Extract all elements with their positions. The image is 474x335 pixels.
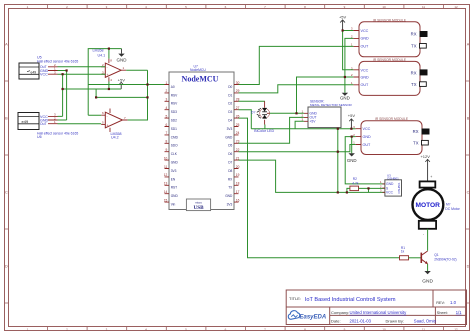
svg-text:BiColor LED: BiColor LED: [254, 129, 274, 133]
svg-text:4.7k: 4.7k: [352, 182, 358, 186]
svg-text:1k: 1k: [401, 250, 405, 254]
svg-text:GND: GND: [347, 158, 357, 163]
svg-text:OuT: OuT: [40, 122, 47, 126]
svg-text:VCC: VCC: [361, 29, 369, 33]
svg-text:e49: e49: [31, 70, 37, 74]
NodeMCU body: [169, 72, 234, 210]
svg-text:6: 6: [166, 123, 168, 127]
svg-text:e49: e49: [22, 119, 29, 124]
svg-text:2021-01-03: 2021-01-03: [350, 319, 372, 324]
IR sensor module 3: [353, 117, 429, 155]
TITLE BLOCK: [286, 290, 466, 325]
junction dots right: [295, 29, 369, 193]
wire node stub: [96, 89, 147, 97]
svg-text:+: +: [107, 123, 109, 127]
svg-text:5: 5: [166, 114, 168, 118]
wire feedback to U4.2 in-: [88, 49, 121, 116]
svg-text:8: 8: [166, 140, 168, 144]
svg-text:3: 3: [166, 98, 168, 102]
svg-text:10: 10: [382, 5, 386, 9]
svg-text:12: 12: [454, 328, 458, 332]
wire metal detector +5V to rail: [295, 121, 304, 128]
svg-text:RSV: RSV: [171, 93, 178, 97]
svg-text:CMD: CMD: [171, 135, 179, 139]
wire module3 GND to GND symbol: [351, 137, 353, 154]
svg-text:+5V: +5V: [118, 77, 126, 82]
svg-text:VCC: VCC: [361, 68, 369, 72]
svg-text:B: B: [5, 116, 8, 120]
wire D1 to IR module2 OUT: [239, 85, 354, 93]
svg-text:D?: D?: [251, 111, 255, 115]
svg-text:B: B: [467, 116, 470, 120]
MOTOR AREA: [400, 154, 461, 285]
svg-text:-: -: [107, 114, 108, 118]
svg-text:CLK: CLK: [171, 152, 178, 156]
MOTOR AREA placeholder: [0, 0, 1, 1]
svg-text:-: -: [107, 65, 108, 69]
wire motor to transistor collector: [427, 229, 429, 251]
svg-text:A: A: [5, 42, 8, 46]
svg-text:2N3904(TO-92): 2N3904(TO-92): [434, 258, 456, 262]
svg-text:GND: GND: [422, 279, 433, 285]
svg-text:SD3: SD3: [171, 110, 177, 114]
svg-text:16: 16: [236, 198, 240, 202]
LEFT AREA: [18, 48, 165, 140]
svg-text:Q1: Q1: [434, 253, 439, 257]
+5V symbol module3: [348, 113, 356, 129]
svg-text:18: 18: [236, 182, 240, 186]
svg-text:D: D: [467, 264, 470, 268]
op-amp U4.2: [101, 109, 127, 133]
wire D5 to metal detector OUT: [239, 117, 304, 143]
svg-text:3V3: 3V3: [227, 127, 233, 131]
svg-text:17: 17: [236, 190, 240, 194]
svg-text:3V3: 3V3: [171, 169, 177, 173]
svg-text:VCC: VCC: [40, 73, 48, 77]
svg-text:Date:: Date:: [331, 319, 341, 324]
+5V symbol (op-amp U4.1): [118, 77, 126, 89]
svg-text:A: A: [467, 42, 470, 46]
RIGHT AREA: [239, 15, 430, 258]
svg-text:10: 10: [382, 328, 386, 332]
wire LED common to metal detector GND and module2 GND: [269, 77, 353, 113]
svg-text:OSHB01: OSHB01: [397, 182, 401, 193]
svg-text:Hall effect sensor 49e 6165: Hall effect sensor 49e 6165: [37, 131, 78, 135]
NodeMCU U7: [164, 65, 240, 212]
svg-text:+12V: +12V: [420, 154, 430, 159]
wire module1 GND down to GND symbol: [345, 38, 354, 92]
svg-text:+: +: [430, 175, 432, 179]
svg-text:U4.1: U4.1: [98, 54, 106, 58]
wire D6 to R2 node: [239, 151, 338, 153]
svg-text:RX: RX: [411, 32, 417, 37]
hall effect sensor U6: [18, 113, 39, 130]
IR sensor module 2: [351, 58, 428, 95]
svg-text:RX: RX: [413, 129, 419, 134]
svg-text:12: 12: [164, 173, 168, 177]
svg-text:+5V: +5V: [339, 15, 347, 20]
svg-text:GND: GND: [361, 37, 370, 41]
svg-text:D2: D2: [228, 102, 232, 106]
svg-text:SDO: SDO: [171, 144, 178, 148]
NodeMCU pin numbers and names: [164, 81, 240, 207]
svg-text:micro: micro: [195, 200, 202, 204]
svg-text:NodeMCU: NodeMCU: [182, 74, 219, 83]
bicolor LED D?: [257, 101, 270, 124]
wire U5.VCC to U4.1 in+: [58, 73, 106, 75]
svg-text:GND: GND: [340, 96, 350, 101]
svg-text:15: 15: [164, 198, 168, 202]
svg-text:Company:: Company:: [331, 310, 349, 315]
wire +5V rail to op-amp power: [63, 82, 122, 90]
svg-text:Drawn By:: Drawn By:: [386, 319, 404, 324]
wire LED bottom to rail: [264, 125, 266, 129]
svg-text:REV:: REV:: [436, 301, 445, 305]
wire D2 to LED top: [239, 100, 265, 102]
wire emitter to GND: [427, 264, 429, 271]
wire U5.GND down to U6.GND: [58, 71, 67, 121]
hall effect sensor U5: [19, 63, 39, 79]
svg-text:GND: GND: [117, 58, 128, 63]
svg-text:20: 20: [236, 165, 240, 169]
op-amp U4.1: [101, 59, 126, 83]
svg-text:GND: GND: [225, 194, 233, 198]
svg-text:SD1: SD1: [171, 127, 177, 131]
svg-text:OUT: OUT: [361, 83, 370, 87]
svg-text:3V3: 3V3: [227, 203, 233, 207]
svg-text:+5V: +5V: [310, 120, 317, 124]
svg-text:+: +: [107, 73, 109, 77]
svg-text:DC Motor: DC Motor: [445, 207, 460, 211]
svg-text:A0: A0: [171, 85, 175, 89]
svg-text:USB: USB: [193, 205, 204, 211]
svg-text:U4.2: U4.2: [111, 136, 119, 140]
GND symbol (op-amp U4.1): [117, 49, 128, 63]
wire module3 OUT to D6 node: [338, 145, 356, 152]
svg-text:1/1: 1/1: [456, 310, 462, 315]
svg-text:IoT Based Industrial Controll: IoT Based Industrial Controll System: [305, 297, 396, 303]
svg-text:12: 12: [454, 5, 458, 9]
svg-text:D1: D1: [228, 93, 232, 97]
svg-text:11: 11: [164, 165, 168, 169]
svg-text:13: 13: [164, 182, 168, 186]
micro USB connector: [186, 199, 210, 211]
svg-text:GND: GND: [363, 135, 372, 139]
svg-text:GND: GND: [171, 194, 179, 198]
svg-text:Vin: Vin: [171, 203, 176, 207]
svg-text:Saad, Omio: Saad, Omio: [414, 319, 437, 324]
metal detector sensor box: [302, 107, 341, 128]
svg-text:9: 9: [166, 148, 168, 152]
resistor R1: [400, 246, 409, 260]
svg-text:1.0: 1.0: [450, 300, 457, 305]
svg-text:TX: TX: [411, 82, 417, 87]
svg-text:1: 1: [166, 81, 168, 85]
U6 pins: [40, 113, 58, 127]
svg-text:14: 14: [164, 190, 168, 194]
GND symbol (module3): [347, 153, 357, 163]
svg-text:25: 25: [236, 123, 240, 127]
wire U6.OuT to U4.2 in+: [58, 123, 102, 125]
motor M?: [413, 181, 444, 228]
svg-text:10: 10: [164, 156, 168, 160]
svg-text:EasyEDA: EasyEDA: [300, 315, 327, 321]
svg-text:D0: D0: [228, 85, 232, 89]
svg-text:OUT: OUT: [363, 143, 372, 147]
wire U5.OUT to U4.1 in-: [58, 66, 106, 68]
GND symbol (modules 1-2): [340, 93, 350, 101]
svg-text:D5: D5: [228, 144, 232, 148]
wire D7 to U3 VCC: [239, 160, 385, 192]
wire to NodeMCU A0: [88, 84, 164, 86]
svg-text:4: 4: [166, 106, 168, 110]
svg-text:RSV: RSV: [171, 102, 178, 106]
wire +5V to module1 and module2 VCC: [343, 31, 354, 70]
wire U5.VCC down to U6.VCC: [58, 74, 63, 116]
svg-text:TX: TX: [411, 44, 417, 49]
svg-text:19: 19: [236, 173, 240, 177]
svg-text:SD2: SD2: [171, 119, 177, 123]
+12V symbol: [420, 154, 432, 182]
svg-text:D8: D8: [228, 169, 232, 173]
svg-text:EN: EN: [171, 177, 176, 181]
wire D0 to IR module1 OUT: [239, 46, 354, 84]
svg-text:RST: RST: [171, 186, 177, 190]
svg-text:Sheet:: Sheet:: [437, 310, 448, 315]
svg-text:7: 7: [166, 131, 168, 135]
wire D3 down to +5V rail: [239, 110, 252, 129]
svg-text:+5V: +5V: [348, 113, 356, 118]
+5V symbol top: [339, 15, 347, 31]
svg-text:Hall effect sensor 49e 6165: Hall effect sensor 49e 6165: [37, 59, 78, 63]
IR sensor module 1: [351, 19, 428, 57]
EasyEDA logo: [288, 311, 326, 321]
svg-text:D7: D7: [228, 161, 232, 165]
svg-text:24: 24: [236, 131, 240, 135]
transistor Q1: [418, 251, 431, 264]
svg-text:D: D: [5, 264, 8, 268]
svg-text:D4: D4: [228, 119, 232, 123]
svg-text:VCC: VCC: [386, 191, 394, 195]
GND symbol (Q1): [422, 271, 433, 285]
svg-text:U6: U6: [37, 135, 42, 139]
svg-text:D6: D6: [228, 152, 232, 156]
svg-text:RX: RX: [411, 71, 417, 76]
resistor R2: [350, 177, 359, 190]
wire +5V rail to module3 VCC: [251, 128, 355, 130]
svg-text:United International Universit: United International University: [350, 310, 408, 315]
svg-text:MOTOR: MOTOR: [415, 202, 440, 209]
svg-text:C: C: [5, 190, 8, 194]
svg-text:C: C: [467, 190, 470, 194]
wire R2 to U3 S pin: [347, 188, 385, 192]
svg-text:VCC: VCC: [363, 127, 371, 131]
svg-text:2: 2: [166, 89, 168, 93]
wire D4 down to transistor base resistor: [239, 118, 400, 258]
svg-text:TX: TX: [413, 140, 419, 145]
wire +5V rail down to R2: [337, 129, 339, 193]
wire op outputs vertical: [126, 70, 147, 120]
U5 pins: [40, 63, 58, 77]
U3 driver module: [380, 174, 402, 197]
NodeMCU pin stubs: [165, 85, 239, 203]
svg-text:11: 11: [422, 5, 425, 9]
svg-text:OUT: OUT: [361, 45, 370, 49]
wire module3 GND to U3 GND: [345, 137, 385, 184]
svg-text:TITLE:: TITLE:: [289, 296, 301, 301]
svg-text:GND: GND: [361, 75, 370, 79]
svg-text:11: 11: [422, 328, 425, 332]
wire R1 to base: [409, 257, 421, 259]
svg-text:GND: GND: [171, 161, 179, 165]
junction dots left: [62, 48, 149, 99]
svg-text:GND: GND: [225, 135, 233, 139]
svg-text:D3: D3: [228, 110, 232, 114]
